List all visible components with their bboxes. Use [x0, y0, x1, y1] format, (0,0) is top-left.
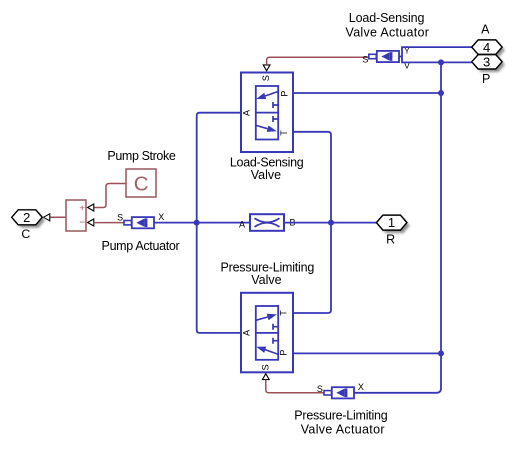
wire: PL actuator X up to pressure rail [354, 353, 441, 392]
wire: pump actuator X to node A [154, 222, 197, 224]
svg-text:C: C [21, 227, 30, 241]
input arrow at sum - input [88, 219, 94, 226]
orifice (fixed orifice) [239, 214, 296, 231]
pump actuator [117, 212, 164, 228]
svg-text:P: P [279, 91, 289, 97]
input arrow at sum + input [88, 204, 94, 211]
wire: node A to orifice A [197, 222, 250, 224]
svg-text:Valve Actuator: Valve Actuator [301, 422, 385, 436]
port 1 (R) connection port [376, 215, 409, 233]
svg-text:S: S [260, 364, 270, 370]
wire: PL valve actuator S output to PL valve S (physical signal) [266, 380, 324, 393]
wire: node B to port R [331, 222, 377, 224]
port 2 (C) connection port [12, 210, 45, 228]
svg-text:Pressure-Limiting: Pressure-Limiting [294, 409, 387, 423]
svg-text:X: X [358, 382, 364, 392]
signal arrow into PL valve S port [262, 374, 269, 380]
svg-text:S: S [362, 54, 368, 64]
svg-text:3: 3 [483, 55, 490, 70]
wire: LS valve T down to node B [293, 132, 331, 223]
signal arrow into LS valve S port [263, 65, 270, 71]
wire: orifice B to node B [284, 222, 331, 224]
svg-text:T: T [279, 130, 289, 136]
svg-text:X: X [158, 212, 164, 222]
svg-text:A: A [241, 330, 251, 336]
wire: pump actuator S to sum - input (physical signal) [94, 222, 124, 224]
svg-text:R: R [386, 233, 395, 247]
junction at rail and LS valve P [438, 90, 444, 96]
sum block (PS Add) [66, 200, 86, 231]
svg-text:C: C [134, 173, 149, 196]
wire: actuator Y to port 4 (A) with connector bracket [402, 47, 472, 62]
svg-text:A: A [239, 220, 245, 230]
Load-Sensing valve actuator [362, 46, 410, 71]
junction at rail and PL valve P [438, 350, 444, 356]
constant block C (Pump Stroke) [126, 169, 156, 197]
wire: sum output to port C [50, 216, 66, 218]
svg-text:Valve: Valve [251, 273, 281, 287]
svg-text:−: − [79, 216, 85, 228]
wire: LS valve P to pressure rail [293, 92, 441, 94]
svg-text:Load-Sensing: Load-Sensing [349, 11, 425, 25]
Load-Sensing valve [241, 73, 293, 153]
svg-text:A: A [241, 110, 251, 116]
wire: constant C output to sum + input (physical signal) [94, 184, 126, 208]
wire: PL valve T up to node B [293, 223, 331, 313]
junction node A [194, 220, 200, 226]
svg-text:Valve Actuator: Valve Actuator [346, 25, 429, 39]
svg-text:S: S [317, 384, 323, 394]
input arrow at port 2 [43, 214, 49, 221]
svg-text:4: 4 [483, 40, 490, 55]
Pressure-Limiting valve [241, 293, 293, 373]
junction on P line below port 3 [438, 59, 444, 65]
svg-text:Valve: Valve [251, 168, 281, 182]
svg-text:Pump Stroke: Pump Stroke [107, 149, 175, 163]
port 4 (A) connection port [472, 40, 505, 58]
pressure rail vertical wire [440, 62, 442, 353]
svg-text:S: S [117, 212, 123, 222]
Pressure-Limiting valve actuator [317, 382, 364, 398]
wire: LS valve A to node A (vertical) [197, 113, 241, 223]
svg-text:1: 1 [388, 215, 395, 230]
junction node B [328, 220, 334, 226]
svg-text:Pump Actuator: Pump Actuator [102, 239, 180, 253]
svg-text:2: 2 [23, 210, 30, 225]
wire: LS valve actuator S output to LS valve S (physical signal) [267, 57, 369, 65]
svg-text:+: + [79, 203, 85, 215]
svg-text:T: T [279, 310, 289, 316]
wire: PL valve P to pressure rail [293, 352, 441, 354]
svg-text:P: P [279, 350, 289, 356]
svg-text:P: P [482, 72, 490, 86]
wire: PL valve A to node A (vertical) [197, 223, 241, 333]
svg-text:S: S [261, 75, 271, 81]
port 3 (P) connection port [472, 55, 505, 73]
svg-text:A: A [481, 23, 490, 37]
